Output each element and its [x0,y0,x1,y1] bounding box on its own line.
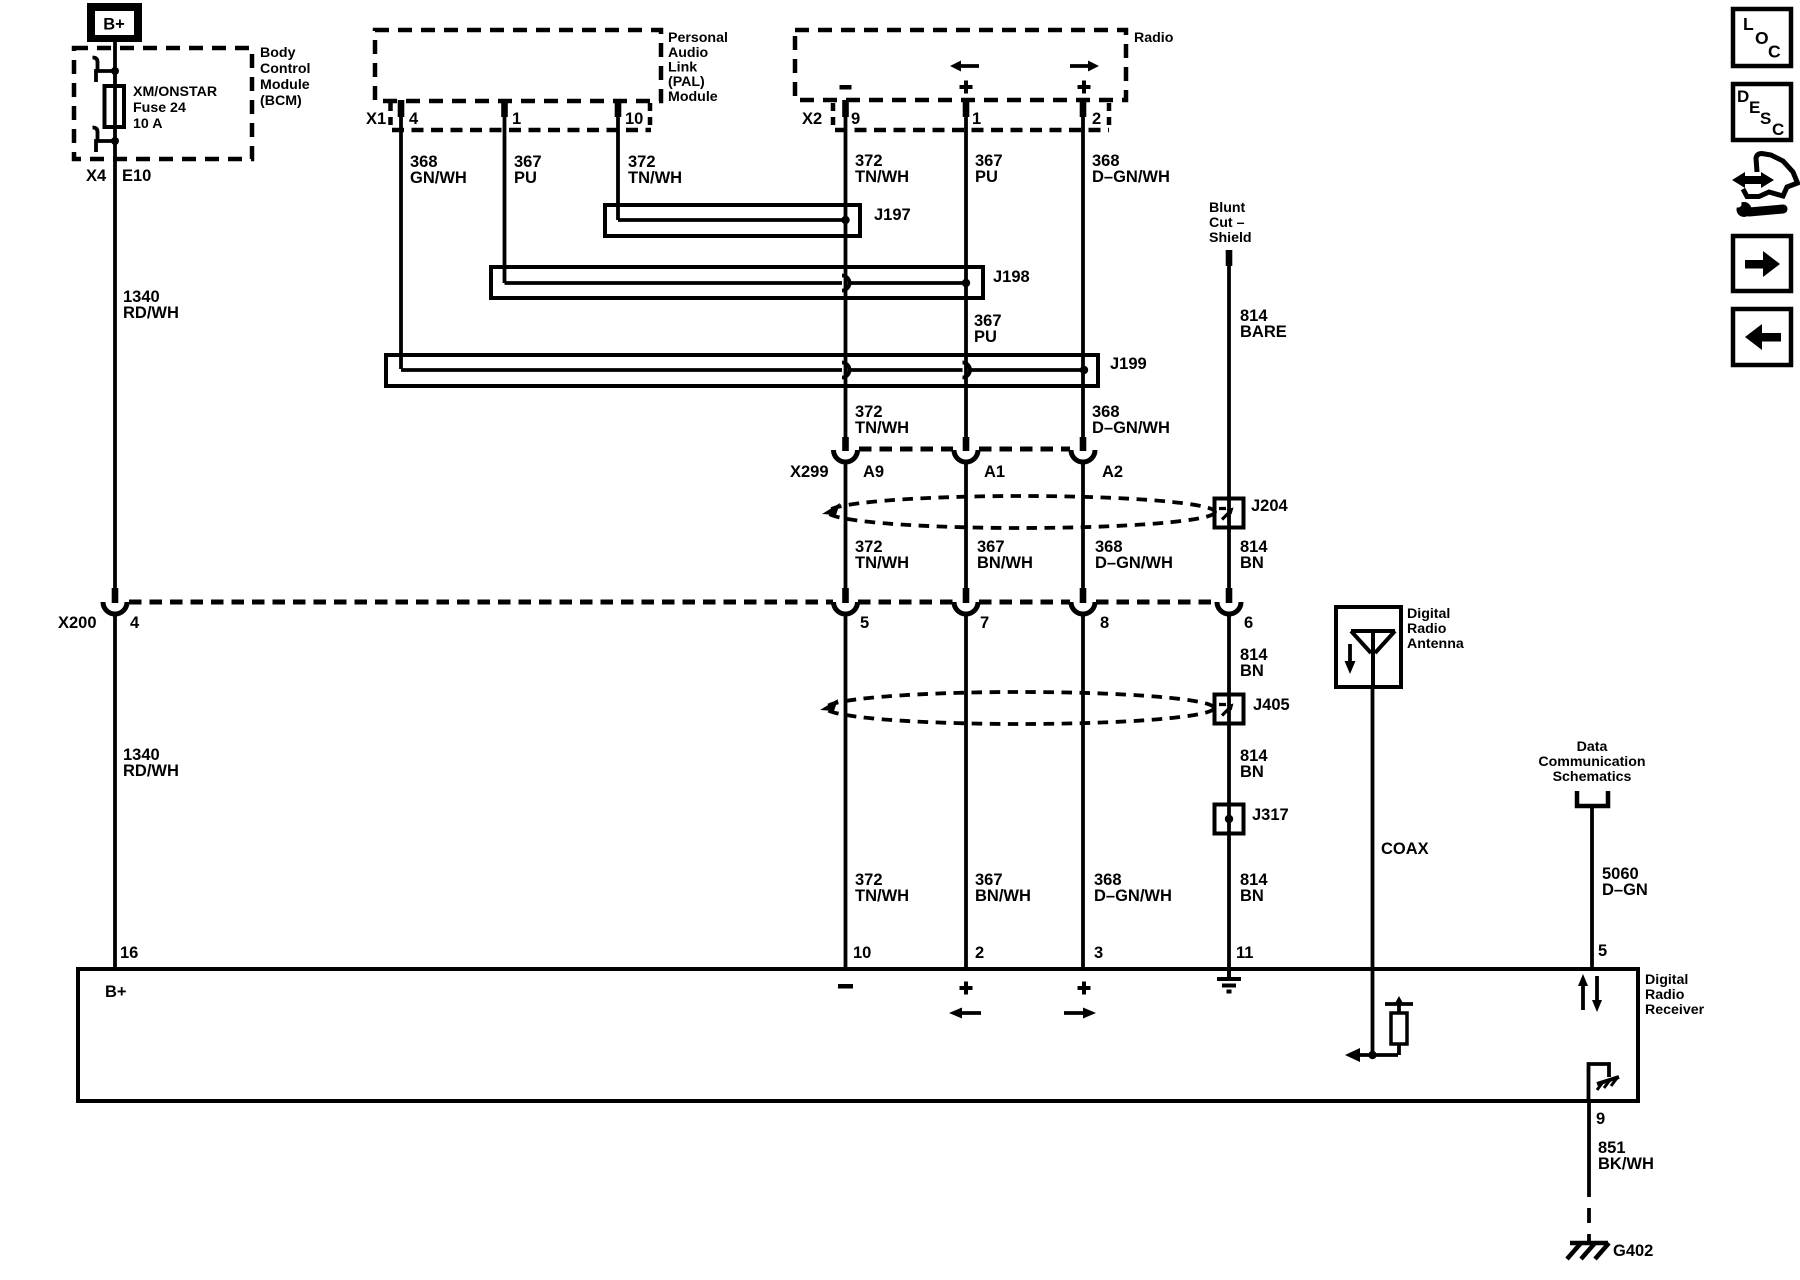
svg-text:7: 7 [980,614,989,632]
fuse XM/ONSTAR Fuse 24 10 A [105,86,125,127]
svg-text:3: 3 [1094,944,1103,962]
svg-text:DESC: DESC [1737,87,1784,139]
up-down arrows in receiver (pin 5) [1578,974,1602,1012]
terminal cap pin 4 [398,100,405,117]
off-page connector symbol [1577,791,1608,806]
svg-text:814BARE: 814BARE [1240,307,1287,341]
coax termination arrow in receiver [1345,1048,1398,1062]
svg-text:1: 1 [972,110,981,128]
svg-text:368D–GN/WH: 368D–GN/WH [1095,538,1173,572]
antenna down arrow [1345,644,1356,674]
svg-text:367PU: 367PU [514,153,542,187]
svg-text:X4: X4 [86,167,107,185]
svg-text:368GN/WH: 368GN/WH [410,153,467,187]
connector X200 pin 8 terminal [1071,588,1095,614]
wire 368 D-GN/WH X299 to X200 [1081,461,1085,588]
svg-text:367BN/WH: 367BN/WH [975,871,1031,905]
svg-text:B+: B+ [105,983,127,1001]
svg-text:16: 16 [120,944,138,962]
splice box J198 [491,267,983,298]
svg-text:372TN/WH: 372TN/WH [855,871,909,905]
minus sign in Radio [840,85,852,90]
svg-text:367PU: 367PU [975,152,1003,186]
svg-text:5: 5 [860,614,869,632]
plus sign in Radio (pin 2) [1078,81,1091,94]
wire B+ to fuse (x=115) [113,42,117,588]
svg-text:372TN/WH: 372TN/WH [855,538,909,572]
connector X200 pin 5 terminal [834,588,858,614]
wire 368 GN/WH from X1 pin 4 to J199 [399,117,403,369]
antenna symbol [1351,631,1395,687]
svg-text:E10: E10 [122,167,151,185]
connector X1 strip [391,103,652,130]
svg-text:814BN: 814BN [1240,747,1268,781]
terminal cap pin 1 (X2) [963,100,970,117]
splice box J317 [1215,805,1244,834]
Body Control Module (BCM) dashed box [74,48,252,159]
svg-text:J197: J197 [874,206,911,224]
svg-text:X200: X200 [58,614,97,632]
wire 814 BN X200 to J405 [1227,613,1231,969]
icon next button [1733,236,1791,291]
plus sign in Radio (pin 1) [960,81,973,94]
svg-text:J204: J204 [1251,497,1289,515]
icon LOC button [1733,9,1791,66]
svg-text:COAX: COAX [1381,840,1429,858]
svg-text:X1: X1 [366,110,386,128]
connector X299 pin A9 terminal [834,437,858,462]
right arrow in Radio [1070,61,1099,72]
X299 dashed connector line [859,447,1070,452]
icon back button [1733,309,1791,365]
svg-text:851BK/WH: 851BK/WH [1598,1139,1654,1173]
svg-text:DigitalRadioAntenna: DigitalRadioAntenna [1407,606,1464,652]
svg-text:1: 1 [512,110,521,128]
svg-text:1340RD/WH: 1340RD/WH [123,288,179,322]
twisted pair arrow tip lower [820,699,838,711]
svg-text:PersonalAudioLink(PAL)Module: PersonalAudioLink(PAL)Module [668,30,728,105]
junction dot COAX [1368,1051,1376,1059]
svg-text:BluntCut –Shield: BluntCut –Shield [1209,200,1252,246]
fuse terminal hook upper [93,58,120,83]
svg-text:814BN: 814BN [1240,871,1268,905]
svg-text:11: 11 [1236,944,1253,962]
junction dot J199 [1080,366,1088,374]
wire 372 TN/WH from X1 pin 10 to J197 [616,117,620,220]
svg-text:372TN/WH: 372TN/WH [855,403,909,437]
terminal cap pin 2 (X2) [1080,100,1087,117]
svg-text:2: 2 [975,944,984,962]
svg-text:5: 5 [1598,942,1607,960]
Radio dashed box [795,30,1126,100]
connector X2 strip [833,103,1109,130]
right arrow in receiver [1064,1008,1096,1019]
wire 372 TN/WH X200 to receiver pin 10 [844,613,848,969]
plus sign in receiver (pin 2) [960,982,973,995]
COAX wire antenna to receiver [1371,687,1375,1055]
svg-text:367BN/WH: 367BN/WH [977,538,1033,572]
ground symbol in receiver (pin 11) [1217,969,1241,992]
svg-text:G402: G402 [1613,1242,1653,1260]
svg-text:368D–GN/WH: 368D–GN/WH [1092,152,1170,186]
resistor in receiver [1385,996,1413,1055]
svg-text:J317: J317 [1252,806,1289,824]
svg-text:372TN/WH: 372TN/WH [855,152,909,186]
case ground symbol in receiver [1589,1064,1620,1101]
svg-text:4: 4 [409,110,419,128]
wire inside J197 [618,218,846,222]
connector X200 pin 6 terminal [1217,588,1241,614]
icon wrench with arrows [1732,154,1798,218]
connector X200 pin 7 terminal [954,588,978,614]
connector X299 pin A2 terminal [1071,437,1095,462]
svg-text:A9: A9 [863,463,884,481]
splice box J197 [605,205,860,236]
wire 814 BARE blunt cut to J204 [1227,266,1231,588]
svg-text:2: 2 [1092,110,1101,128]
fuse terminal hook lower [93,128,120,153]
power symbol B+ [87,3,142,42]
svg-text:368D–GN/WH: 368D–GN/WH [1092,403,1170,437]
left arrow in receiver [949,1008,981,1019]
wire 368 D-GN/WH X200 to receiver pin 3 [1081,613,1085,969]
svg-text:A2: A2 [1102,463,1123,481]
terminal cap pin 9 [842,100,849,117]
wire inside J198 with hop [505,276,967,291]
connector X299 pin A1 terminal [954,437,978,462]
twisted pair arrow tip upper [822,503,840,515]
terminal cap pin 10 [615,100,622,117]
Digital Radio Receiver box [78,969,1638,1101]
minus sign in receiver [838,984,853,989]
X200 dashed connector line [129,600,1216,605]
Digital Radio Antenna box [1336,607,1401,687]
svg-text:814BN: 814BN [1240,538,1268,572]
plus sign in receiver (pin 3) [1078,982,1091,995]
wire 367 BN/WH X200 to receiver pin 2 [964,613,968,969]
connector X200 pin 4 terminal [103,588,127,614]
wire 367 PU from X1 pin 1 to J198 [503,117,507,283]
svg-text:XM/ONSTARFuse 2410 A: XM/ONSTARFuse 2410 A [133,84,217,132]
Personal Audio Link (PAL) Module dashed box [375,30,661,101]
svg-text:9: 9 [851,110,860,128]
svg-text:368D–GN/WH: 368D–GN/WH [1094,871,1172,905]
dashed wire to G402 [1587,1182,1591,1241]
svg-text:9: 9 [1596,1110,1605,1128]
svg-text:J405: J405 [1253,696,1290,714]
svg-text:BodyControlModule(BCM): BodyControlModule(BCM) [260,45,310,109]
svg-text:814BN: 814BN [1240,646,1268,680]
svg-text:DigitalRadioReceiver: DigitalRadioReceiver [1645,972,1705,1018]
svg-text:367PU: 367PU [974,312,1002,346]
splice box J199 [386,355,1098,386]
splice box J204 [1215,499,1244,528]
svg-text:1340RD/WH: 1340RD/WH [123,746,179,780]
svg-text:A1: A1 [984,463,1005,481]
svg-text:DataCommunicationSchematics: DataCommunicationSchematics [1538,739,1645,785]
svg-text:4: 4 [130,614,140,632]
svg-text:10: 10 [625,110,643,128]
svg-text:X299: X299 [790,463,829,481]
junction dot J198 [962,279,970,287]
svg-text:8: 8 [1100,614,1109,632]
ground G402 symbol [1567,1243,1609,1259]
wire inside J199 with hops [401,363,1084,378]
svg-text:B+: B+ [103,16,125,34]
svg-text:LOC: LOC [1743,14,1781,62]
svg-text:5060D–GN: 5060D–GN [1602,865,1648,899]
wire 372 TN/WH radio pin 9 down to X299 [844,117,848,437]
junction dot J197 [841,216,849,224]
blunt cut terminal cap [1226,250,1233,266]
icon DESC button [1733,84,1791,140]
svg-text:J199: J199 [1110,355,1147,373]
svg-text:10: 10 [853,944,871,962]
svg-text:6: 6 [1244,614,1253,632]
svg-text:Radio: Radio [1134,30,1174,46]
wire 367 PU radio pin 1 down to X299 [964,117,968,437]
svg-text:372TN/WH: 372TN/WH [628,153,682,187]
wire 5060 D-GN to receiver pin 5 [1590,806,1594,969]
left arrow in Radio [950,61,979,72]
twisted pair ellipse upper [828,496,1215,528]
terminal cap pin 1 [501,100,508,117]
wire 368 D-GN/WH radio pin 2 down to X299 [1081,117,1085,437]
svg-text:J198: J198 [993,268,1030,286]
twisted pair ellipse lower [826,692,1214,724]
splice box J405 [1215,695,1244,724]
wire 1340 RD/WH X200 to receiver pin 16 [113,613,117,969]
svg-text:X2: X2 [802,110,822,128]
wire 367 BN/WH X299 to X200 [964,461,968,588]
wire 372 TN/WH X299 to X200 [844,461,848,588]
wire 851 BK/WH receiver pin 9 [1587,1101,1591,1182]
